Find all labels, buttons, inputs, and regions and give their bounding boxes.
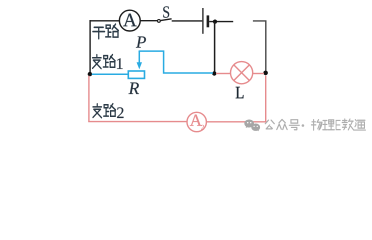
junction dot lamp right node [263,71,268,76]
watermark icon chat bubbles [244,120,260,132]
wire top-left horizontal [90,20,120,22]
wire ammeter to switch [140,20,157,22]
label R [129,83,139,94]
lamp L right lead [252,73,264,75]
resistor R body [128,71,144,78]
watermark text 物理E教通 [311,119,365,130]
switch S blade [160,19,171,21]
wire switch to battery [172,20,203,22]
wire top-right corner grey [253,21,266,73]
wire battery to stub end [209,21,233,23]
lamp L [231,62,253,84]
label P [136,36,146,47]
battery long plate [202,8,204,34]
rheostat slider arrow P [137,51,142,69]
watermark text 公众号 [265,119,299,129]
label S [163,6,169,17]
junction dot lamp left node [212,71,216,75]
wire branch2 left vertical (red) [88,76,90,122]
ammeter A2 [187,112,206,131]
wire battery node down to lamp node [214,22,216,74]
label 干路 main-branch [93,24,119,39]
watermark separator dot [302,124,305,127]
label 支路1 branch-1 [93,55,116,69]
wire branch2 bottom left (red) [88,121,187,123]
lamp L left lead [216,73,230,75]
battery short plate [207,15,210,27]
ammeter A [119,10,140,31]
wire slider to lamp node (cyan) [139,51,213,73]
wire branch2 right vertical (red) [265,76,267,122]
junction dot branch node left [88,72,92,76]
wire branch2 bottom right (red) [206,121,266,123]
wire left vertical border [89,20,91,74]
label L [236,87,244,98]
label 支路2 branch-2 [93,104,116,118]
switch S pivot [158,20,161,23]
wire node to resistor left (cyan) [92,73,129,75]
junction dot battery node [213,20,217,24]
